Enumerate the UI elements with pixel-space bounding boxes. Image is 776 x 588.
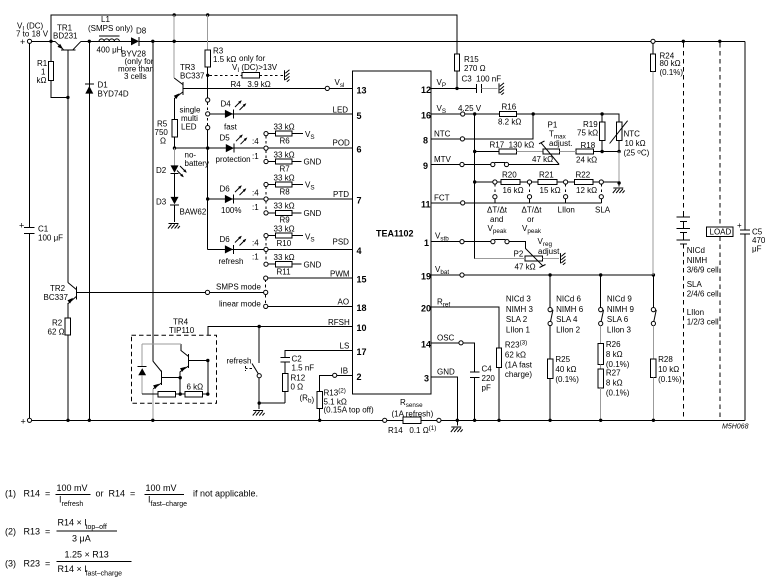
wire right edge: [744, 41, 746, 420]
svg-text:Vpeak: Vpeak: [522, 224, 542, 235]
svg-text:refresh: refresh: [219, 257, 244, 266]
svg-text:14: 14: [421, 339, 431, 349]
svg-text:10 kΩ: 10 kΩ: [625, 139, 646, 148]
svg-text:kΩ: kΩ: [37, 76, 47, 85]
svg-text:R28: R28: [658, 355, 673, 364]
switch column 4: [652, 275, 654, 308]
svg-text:62 Ω: 62 Ω: [48, 328, 65, 337]
svg-text:only for: only for: [239, 54, 266, 63]
svg-text:pF: pF: [482, 384, 491, 393]
svg-text:PTD: PTD: [333, 190, 349, 199]
wire IB pin2: [320, 375, 353, 391]
svg-text:LED: LED: [333, 106, 349, 115]
svg-text:protection: protection: [216, 155, 251, 164]
svg-text:LIlon 1: LIlon 1: [506, 325, 531, 334]
svg-text:R21: R21: [539, 171, 554, 180]
switch column 3: [600, 275, 602, 308]
svg-text:R8: R8: [280, 187, 291, 196]
load box: [718, 40, 721, 43]
svg-text:3 μA: 3 μA: [72, 534, 91, 544]
svg-text:P1: P1: [548, 121, 558, 130]
svg-text:SLA: SLA: [687, 280, 703, 289]
svg-text:battery: battery: [185, 159, 209, 168]
svg-text:top–off: top–off: [86, 524, 107, 531]
svg-text:R14 =: R14 =: [24, 489, 51, 499]
svg-text:charge): charge): [505, 370, 532, 379]
node FCT selector taps: [493, 180, 497, 184]
svg-text:D1: D1: [98, 81, 109, 90]
transistor TR4 output T1: [153, 361, 162, 389]
svg-text:Vstb: Vstb: [435, 232, 449, 243]
svg-text:refresh: refresh: [62, 501, 84, 508]
svg-text:NICd 9: NICd 9: [607, 295, 632, 304]
svg-text:LIlon: LIlon: [558, 206, 575, 215]
svg-text:100 μF: 100 μF: [38, 234, 63, 243]
diode TR4 internal: [142, 344, 181, 394]
svg-text:8.2 kΩ: 8.2 kΩ: [498, 118, 521, 127]
svg-text:+: +: [737, 221, 742, 230]
ground for C3: [499, 83, 504, 95]
wire NTC ground column: [618, 152, 620, 184]
svg-text:33 kΩ: 33 kΩ: [274, 150, 295, 159]
svg-text:6 kΩ: 6 kΩ: [187, 383, 204, 392]
svg-text:fast–charge: fast–charge: [151, 501, 188, 508]
svg-text:R13(2): R13(2): [324, 388, 346, 398]
ground for P2: [561, 253, 566, 265]
svg-text:33 kΩ: 33 kΩ: [274, 253, 295, 262]
svg-text:OSC: OSC: [437, 334, 455, 343]
svg-text:IB: IB: [341, 366, 349, 375]
svg-text:80 kΩ: 80 kΩ: [660, 59, 681, 68]
svg-text:1/2/3 cell: 1/2/3 cell: [687, 318, 719, 327]
svg-text:R26: R26: [606, 340, 621, 349]
switch column 2: [549, 275, 551, 308]
svg-text:BC337: BC337: [180, 72, 205, 81]
svg-text:R4 3.9 kΩ: R4 3.9 kΩ: [231, 80, 271, 89]
wire FCT ladder line: [475, 181, 619, 183]
svg-text:(1A fast: (1A fast: [505, 360, 533, 369]
svg-text:12: 12: [421, 85, 431, 95]
node SMPS/linear mode selector: [205, 290, 209, 294]
svg-text:10 kΩ: 10 kΩ: [658, 365, 679, 374]
svg-text:or: or: [527, 215, 534, 224]
svg-text:33 kΩ: 33 kΩ: [274, 225, 295, 234]
svg-text:R10: R10: [277, 239, 292, 248]
svg-text:(0.15A top off): (0.15A top off): [324, 406, 374, 415]
svg-text:R17 130 kΩ: R17 130 kΩ: [490, 140, 535, 149]
svg-text:SLA: SLA: [595, 206, 611, 215]
svg-text:LED: LED: [181, 123, 197, 132]
svg-text:24 kΩ: 24 kΩ: [576, 156, 597, 165]
svg-text:P2: P2: [514, 250, 524, 259]
svg-text:LS: LS: [340, 342, 350, 351]
transistor TR4 input T2: [180, 350, 188, 371]
svg-text:C4: C4: [482, 365, 493, 374]
svg-text:1.25 × R13: 1.25 × R13: [65, 550, 109, 560]
wire VS reference bus: [475, 114, 500, 258]
svg-text:D4: D4: [221, 100, 232, 109]
wire TR4 collector from top rail: [152, 41, 154, 361]
svg-text:M5H068: M5H068: [722, 424, 749, 431]
svg-text:R7: R7: [280, 164, 291, 173]
svg-text:BC337: BC337: [44, 293, 69, 302]
svg-text:R16: R16: [502, 103, 517, 112]
svg-text:fast–charge: fast–charge: [86, 571, 123, 578]
svg-text:+: +: [21, 417, 26, 427]
svg-text:R14 0.1 Ω(1): R14 0.1 Ω(1): [388, 425, 436, 435]
svg-text:NIMH 3: NIMH 3: [506, 305, 534, 314]
svg-text:62 kΩ: 62 kΩ: [505, 351, 526, 360]
svg-text:3 cells: 3 cells: [124, 72, 147, 81]
svg-text:1.5 nF: 1.5 nF: [292, 364, 315, 373]
svg-text:adjust.: adjust.: [549, 139, 573, 148]
svg-text:R25: R25: [555, 355, 570, 364]
svg-text:LIlon: LIlon: [687, 308, 704, 317]
svg-text::4: :4: [252, 239, 259, 248]
svg-text:GND: GND: [437, 368, 455, 377]
svg-text:15 kΩ: 15 kΩ: [540, 186, 561, 195]
svg-text:RFSH: RFSH: [328, 318, 350, 327]
svg-text:+: +: [19, 221, 24, 231]
svg-text:15: 15: [357, 275, 367, 285]
svg-text:3: 3: [424, 373, 429, 383]
ground refresh/R12: [253, 411, 265, 416]
svg-text:FCT: FCT: [434, 194, 450, 203]
svg-text:17: 17: [357, 347, 367, 357]
svg-text:SLA 4: SLA 4: [556, 315, 578, 324]
svg-text:75 kΩ: 75 kΩ: [577, 129, 598, 138]
svg-text:33 kΩ: 33 kΩ: [274, 202, 295, 211]
svg-text:GND: GND: [304, 158, 322, 167]
svg-text:GND: GND: [304, 260, 322, 269]
svg-text:D6: D6: [220, 185, 231, 194]
svg-text:LOAD: LOAD: [710, 228, 732, 237]
svg-text:16: 16: [421, 111, 431, 121]
svg-text:(1): (1): [5, 489, 16, 499]
svg-text:R22: R22: [576, 171, 591, 180]
svg-text:8 kΩ: 8 kΩ: [606, 350, 623, 359]
svg-text:C1: C1: [38, 225, 49, 234]
svg-text:AO: AO: [338, 298, 350, 307]
svg-text:D6: D6: [220, 235, 231, 244]
svg-text:R14 × I: R14 × I: [58, 564, 87, 574]
svg-text:Vsl: Vsl: [335, 78, 345, 89]
svg-text:SMPS mode: SMPS mode: [216, 283, 261, 292]
svg-text:D5: D5: [220, 134, 231, 143]
svg-text::1: :1: [252, 203, 259, 212]
svg-text:VS: VS: [305, 233, 315, 244]
svg-text::1: :1: [252, 152, 259, 161]
svg-text:47 kΩ: 47 kΩ: [532, 155, 553, 164]
svg-text::4: :4: [252, 137, 259, 146]
svg-text:ΔT/Δt: ΔT/Δt: [487, 206, 508, 215]
svg-text:8 kΩ: 8 kΩ: [606, 378, 623, 387]
svg-text:VP: VP: [437, 78, 447, 89]
svg-text:13: 13: [357, 85, 367, 95]
svg-text:10: 10: [357, 323, 367, 333]
svg-text:fast: fast: [224, 123, 238, 132]
svg-text:+: +: [20, 37, 25, 47]
svg-text:8: 8: [423, 135, 428, 145]
svg-text:R20: R20: [502, 171, 517, 180]
svg-text:POD: POD: [333, 139, 351, 148]
svg-text::4: :4: [252, 188, 259, 197]
svg-text:9: 9: [423, 161, 428, 171]
wire AO pin18: [268, 305, 353, 307]
svg-text:BD231: BD231: [53, 31, 78, 40]
svg-text:linear mode: linear mode: [219, 300, 261, 309]
svg-text:SLA 6: SLA 6: [607, 315, 629, 324]
svg-text:NIMH: NIMH: [687, 256, 708, 265]
svg-text:R15: R15: [464, 55, 479, 64]
svg-text:D3: D3: [156, 198, 167, 207]
wire LS pin17: [285, 350, 352, 357]
svg-text:VS: VS: [305, 181, 315, 192]
svg-text:11: 11: [421, 199, 431, 209]
wire bottom rail: [32, 419, 745, 421]
svg-text:NIMH 6: NIMH 6: [556, 305, 584, 314]
svg-text:19: 19: [421, 272, 431, 282]
svg-text:0 Ω: 0 Ω: [291, 382, 304, 391]
wire top Vi line: [51, 15, 457, 54]
wire top rail: [32, 40, 745, 42]
svg-text:100%: 100%: [221, 206, 241, 215]
svg-text:or R14 =: or R14 =: [96, 489, 136, 499]
svg-text:GND: GND: [304, 209, 322, 218]
svg-text:NICd 6: NICd 6: [556, 295, 581, 304]
svg-text:NTC: NTC: [624, 130, 641, 139]
svg-text:TR2: TR2: [50, 284, 66, 293]
svg-text:NICd 3: NICd 3: [506, 295, 531, 304]
svg-text:TIP110: TIP110: [169, 326, 195, 335]
svg-text::1: :1: [252, 253, 259, 262]
svg-text:400 μH: 400 μH: [97, 46, 123, 55]
svg-text:20: 20: [421, 304, 431, 314]
svg-text:100 mV: 100 mV: [57, 483, 88, 493]
ground NTC/ladder: [613, 188, 625, 193]
svg-text:R11: R11: [277, 268, 292, 277]
svg-text:4: 4: [357, 246, 362, 256]
svg-text:18: 18: [357, 303, 367, 313]
svg-text:2: 2: [357, 372, 362, 382]
svg-text:R27: R27: [606, 368, 621, 377]
resistor TR4 internal base-emitter: [142, 361, 208, 395]
svg-text:TEA1102: TEA1102: [376, 229, 414, 239]
svg-text:(Rb): (Rb): [300, 394, 315, 405]
op-amp U1 TEA1102 IC body: [353, 71, 432, 394]
svg-text:(2): (2): [5, 527, 16, 537]
svg-text:7: 7: [357, 196, 362, 206]
svg-text:33 kΩ: 33 kΩ: [274, 173, 295, 182]
svg-text:5: 5: [357, 111, 362, 121]
svg-text:and: and: [490, 215, 503, 224]
svg-text:NICd: NICd: [687, 246, 705, 255]
svg-text:MTV: MTV: [434, 155, 452, 164]
wire PWM pin15: [268, 277, 353, 279]
svg-text:refresh: refresh: [227, 357, 252, 366]
svg-text:(0.1%): (0.1%): [660, 68, 684, 77]
svg-text:BYD74D: BYD74D: [98, 90, 129, 99]
svg-text:2/4/6 cell: 2/4/6 cell: [687, 290, 719, 299]
svg-text:Vbat: Vbat: [435, 265, 449, 276]
svg-text:D8: D8: [136, 27, 147, 36]
svg-text:L1: L1: [101, 15, 110, 24]
svg-text:12 kΩ: 12 kΩ: [576, 186, 597, 195]
svg-text:(0.1%): (0.1%): [606, 388, 630, 397]
svg-text:4.25 V: 4.25 V: [458, 104, 482, 113]
svg-text:100 mV: 100 mV: [146, 483, 177, 493]
svg-text:3/6/9 cell: 3/6/9 cell: [687, 266, 719, 275]
svg-text:SLA 2: SLA 2: [506, 315, 528, 324]
svg-text:C3 100 nF: C3 100 nF: [462, 75, 502, 84]
svg-text:LIlon 2: LIlon 2: [556, 325, 581, 334]
svg-text:μF: μF: [752, 245, 762, 254]
svg-text:(3): (3): [5, 559, 16, 569]
svg-text:Ω: Ω: [160, 137, 166, 146]
svg-text:R2: R2: [52, 319, 63, 328]
wire RFSH pin10: [208, 327, 353, 361]
svg-text:R6: R6: [280, 137, 291, 146]
svg-text:if not applicable.: if not applicable.: [193, 489, 258, 499]
svg-text:LIlon 3: LIlon 3: [607, 325, 632, 334]
svg-text:270 Ω: 270 Ω: [464, 64, 486, 73]
svg-text:ΔT/Δt: ΔT/Δt: [522, 206, 543, 215]
svg-text:VS: VS: [437, 104, 447, 115]
svg-text:R23(3): R23(3): [505, 340, 527, 350]
svg-text:R14 × I: R14 × I: [58, 518, 87, 528]
svg-text:47 kΩ: 47 kΩ: [515, 263, 536, 272]
svg-text:NIMH 9: NIMH 9: [607, 305, 635, 314]
svg-text:220: 220: [482, 374, 496, 383]
svg-text:D2: D2: [156, 166, 167, 175]
svg-text:(0.1%): (0.1%): [658, 375, 682, 384]
ground for D3: [168, 224, 180, 229]
svg-text:PWM: PWM: [330, 270, 350, 279]
svg-text:R23 =: R23 =: [24, 559, 51, 569]
svg-text:33 kΩ: 33 kΩ: [274, 123, 295, 132]
svg-text:(25 oC): (25 oC): [624, 149, 650, 158]
svg-text:Vpeak: Vpeak: [488, 224, 508, 235]
svg-text:NTC: NTC: [434, 130, 451, 139]
svg-text:R13 =: R13 =: [24, 527, 51, 537]
svg-text:R12: R12: [291, 373, 306, 382]
svg-text:1: 1: [424, 238, 429, 248]
svg-text:40 kΩ: 40 kΩ: [555, 365, 576, 374]
svg-text:BAW62: BAW62: [180, 208, 207, 217]
svg-text:C2: C2: [292, 355, 303, 364]
ground for R4: [285, 70, 290, 82]
svg-text:16 kΩ: 16 kΩ: [503, 186, 524, 195]
svg-text:adjust.: adjust.: [538, 247, 562, 256]
battery stack: [682, 40, 685, 43]
svg-text:Rsense: Rsense: [400, 398, 423, 409]
svg-text:PSD: PSD: [333, 238, 350, 247]
svg-text:6: 6: [357, 145, 362, 155]
svg-text:(SMPS only): (SMPS only): [88, 24, 133, 33]
svg-text:(0.1%): (0.1%): [555, 375, 579, 384]
ground main: [451, 427, 463, 432]
svg-text:R9: R9: [280, 216, 291, 225]
svg-text:VS: VS: [305, 130, 315, 141]
